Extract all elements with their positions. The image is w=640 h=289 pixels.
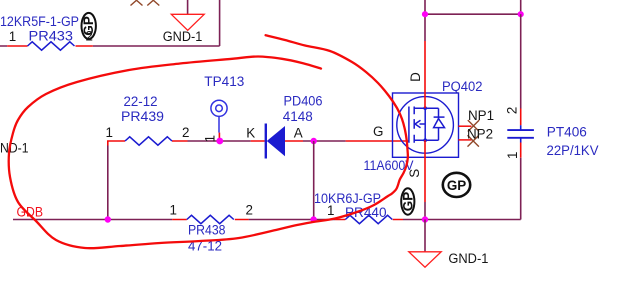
svg-text:1: 1 (106, 125, 113, 140)
node dot at PR440 junction (310, 216, 316, 222)
NP2 pin stub (red) (458, 139, 471, 141)
ground GND-1 (bottom) (409, 252, 441, 267)
freehand red highlight loop (9, 35, 408, 248)
svg-text:PD406: PD406 (284, 94, 323, 109)
svg-text:G: G (373, 124, 383, 139)
wire: drain net (purple) (424, 0, 426, 41)
svg-text:S: S (407, 169, 422, 178)
transistor PQ402 body box (393, 93, 459, 157)
svg-text:TP413: TP413 (204, 74, 244, 89)
svg-text:PR439: PR439 (121, 109, 164, 124)
capacitor PT406 plates (507, 130, 534, 138)
svg-text:1: 1 (505, 151, 520, 158)
resistor PR439 pin leads (red) (108, 141, 188, 146)
wire: top tee horizontal (425, 0, 521, 14)
svg-text:ND-1: ND-1 (0, 141, 29, 156)
no-connect X mark (top, left) (131, 0, 143, 6)
svg-text:2: 2 (246, 203, 253, 218)
svg-text:GP: GP (447, 178, 466, 193)
logo stamp GP rotated (top-left) (81, 13, 96, 39)
svg-text:K: K (246, 126, 255, 141)
wire: right branch down to capacitor (520, 14, 522, 108)
svg-text:22P/1KV: 22P/1KV (547, 143, 599, 158)
svg-text:GND-1: GND-1 (448, 251, 488, 266)
node dot at source/bottom junction (422, 216, 428, 222)
logo stamp GP rotated (above PR440) (400, 188, 415, 214)
transistor PQ402 circle (397, 97, 454, 154)
TP413 pin stub (red) (218, 133, 220, 141)
svg-text:12KR5F-1-GP: 12KR5F-1-GP (0, 14, 79, 29)
svg-text:10KR6J-GP: 10KR6J-GP (314, 191, 381, 206)
svg-text:GP: GP (400, 192, 415, 211)
junction dots inside mosfet (423, 106, 427, 110)
svg-text:22-12: 22-12 (124, 94, 158, 109)
svg-text:PR440: PR440 (345, 205, 387, 220)
svg-text:GND-1: GND-1 (163, 29, 203, 44)
resistor PR433 zigzag (28, 42, 75, 50)
wire: main horizontal net (188, 140, 346, 142)
svg-text:PR433: PR433 (29, 29, 74, 44)
junction node at diode anode (311, 138, 317, 144)
svg-text:2: 2 (86, 29, 93, 44)
svg-text:1: 1 (327, 203, 334, 218)
svg-text:PR438: PR438 (188, 223, 226, 238)
test point TP413 symbol (211, 100, 227, 132)
svg-text:PT406: PT406 (547, 125, 587, 140)
diode PD406 cathode bar (265, 124, 267, 159)
no-connect X at NP2 (468, 135, 479, 146)
wire: left vertical branch (107, 146, 109, 220)
resistor PR438 zigzag (187, 215, 234, 223)
wire: capacitor to bottom corner (425, 158, 521, 220)
node dot top-right (518, 11, 524, 17)
logo stamp GP (near bottom ground) (443, 173, 470, 197)
svg-text:1: 1 (170, 203, 177, 218)
diode PD406 triangle (267, 126, 285, 156)
diode PD406 pin leads (red) (251, 140, 303, 142)
svg-text:PQ402: PQ402 (442, 79, 483, 94)
gate pin stub (red) (346, 140, 409, 142)
svg-text:1: 1 (203, 135, 218, 142)
capacitor PT406 top lead (red) (520, 109, 522, 126)
transistor PQ402 internals (409, 107, 445, 143)
svg-text:NP2: NP2 (467, 127, 493, 142)
resistor PR433 pin leads (red) (7, 45, 93, 47)
resistor PR440 pin leads (red) (335, 219, 403, 221)
junction node at TP413 (216, 138, 223, 145)
drain pin stub (red) (424, 41, 426, 108)
svg-text:A: A (294, 126, 303, 141)
resistor PR440 zigzag (345, 215, 392, 223)
svg-text:4148: 4148 (283, 109, 313, 124)
svg-text:NP1: NP1 (468, 108, 494, 123)
wire: stub down to ground (424, 220, 426, 252)
node dot left bottom corner (105, 216, 111, 222)
svg-text:D: D (408, 72, 423, 82)
resistor PR438 pin leads (red) (172, 219, 248, 221)
no-connect X mark (top, right) (147, 0, 159, 6)
wire: vertical from anode node down (313, 141, 315, 220)
capacitor PT406 bottom lead (red) (520, 143, 522, 158)
wire: source to bottom node (purple) (424, 202, 426, 220)
wire: top-left horizontal net (purple) (0, 0, 220, 46)
svg-text:1: 1 (9, 29, 16, 44)
resistor PR439 zigzag (125, 137, 172, 145)
node dot top-left of drain tee (422, 11, 428, 17)
svg-text:2: 2 (182, 125, 189, 140)
NP1 pin stub (red) (458, 125, 471, 127)
source pin stub (red) (424, 140, 426, 202)
svg-text:2: 2 (505, 107, 520, 114)
ground GND-1 (top) (171, 14, 204, 30)
wire: bottom horizontal net GDB (13, 219, 425, 221)
no-connect X at NP1 (468, 120, 479, 131)
